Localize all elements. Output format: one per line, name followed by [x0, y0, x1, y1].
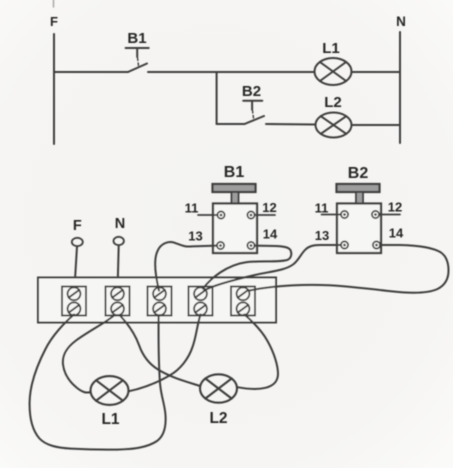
- pushbutton B1 pin 13 terminal: [217, 242, 224, 249]
- pushbutton B1 pin 14 terminal: [247, 242, 254, 249]
- svg-text:11: 11: [315, 201, 329, 216]
- svg-text:L1: L1: [322, 40, 340, 57]
- pushbutton B2 pin 14 terminal: [373, 241, 380, 248]
- pushbutton B2 pin 13 terminal: [341, 241, 348, 248]
- pushbutton B1 body: [213, 204, 257, 254]
- pushbutton B2 cap: [337, 184, 380, 192]
- svg-text:B1: B1: [224, 164, 245, 181]
- pushbutton B2 stem: [356, 192, 363, 204]
- node F input terminal: [72, 238, 83, 246]
- svg-text:14: 14: [389, 226, 404, 241]
- terminal block unit 4: [189, 287, 213, 316]
- svg-text:B2: B2: [242, 83, 261, 100]
- svg-text:L2: L2: [324, 94, 342, 111]
- svg-text:B1: B1: [127, 30, 146, 47]
- svg-text:F: F: [50, 14, 58, 29]
- svg-text:13: 13: [188, 229, 202, 244]
- terminal block outline: [38, 278, 276, 323]
- pushbutton B1 (ladder) actuator: [126, 48, 149, 57]
- lamp L1: [91, 376, 129, 405]
- lamp L2 (ladder): [316, 113, 352, 138]
- wire rung1 middle segment: [148, 71, 315, 73]
- lamp L1 (ladder): [315, 58, 352, 85]
- wire rung1 right segment: [352, 71, 401, 73]
- pushbutton B2 pin 11 terminal: [341, 211, 348, 218]
- wire F rail: [53, 34, 55, 144]
- wire rung1 left segment: [54, 71, 128, 73]
- svg-text:11: 11: [185, 201, 199, 216]
- wire terminal 2 to lamp L1 left: [63, 316, 114, 393]
- pushbutton B1 (ladder) contact blade: [128, 64, 147, 73]
- svg-text:12: 12: [262, 200, 276, 215]
- pushbutton B1 pin 11 terminal: [217, 211, 224, 218]
- wire F to terminal 1: [75, 247, 78, 289]
- pushbutton B1 pin 11 lead: [198, 214, 217, 216]
- pushbutton B1 stem: [232, 192, 239, 204]
- wire N rail: [399, 32, 401, 143]
- svg-text:L2: L2: [209, 410, 227, 427]
- svg-text:L1: L1: [101, 411, 119, 428]
- wire branch rung1 to rung2: [216, 72, 218, 124]
- pushbutton B2 pin 12 terminal: [372, 211, 379, 218]
- pushbutton B1 (ladder) actuator dashed link: [138, 58, 139, 67]
- terminal block unit 5: [231, 287, 255, 316]
- wire terminal 3 to B1 pin 13: [155, 242, 217, 290]
- wire N to terminal 2: [118, 246, 119, 289]
- svg-text:14: 14: [263, 227, 278, 242]
- svg-text:12: 12: [388, 200, 402, 215]
- svg-text:13: 13: [315, 228, 329, 243]
- wire terminal 1 to terminal 3 outer loop: [30, 315, 166, 450]
- wire B2 pin 14 loop to terminal 5: [250, 245, 449, 293]
- wire B2 pin 13 to terminal 4: [204, 245, 341, 291]
- wire B1 pin 14 hairpin to terminal 4: [203, 246, 291, 289]
- pushbutton B2 (ladder) actuator: [243, 101, 262, 110]
- terminal block unit 2: [106, 287, 130, 316]
- pushbutton B2 body: [337, 204, 381, 254]
- pushbutton B1 pin 12 lead: [255, 214, 275, 216]
- terminal block unit 3: [148, 287, 172, 316]
- pushbutton B2 (ladder) actuator dashed link: [253, 111, 254, 120]
- lamp L2: [200, 374, 237, 402]
- wire terminal 2 to lamp L2 left: [120, 316, 200, 387]
- wire terminal 4 to lamp L1 right: [129, 315, 201, 392]
- pushbutton B2 pin 12 lead: [379, 214, 400, 216]
- svg-text:B2: B2: [348, 165, 369, 182]
- svg-text:F: F: [73, 218, 82, 234]
- pushbutton B2 (ladder) contact blade: [245, 116, 265, 124]
- svg-text:N: N: [396, 14, 406, 29]
- pushbutton B1 cap: [213, 184, 256, 192]
- terminal block unit 1: [62, 287, 86, 316]
- wire terminal 5 to lamp L2 right: [238, 315, 279, 390]
- wire rung2 right segment: [352, 124, 401, 126]
- pushbutton B1 pin 12 terminal: [247, 211, 254, 218]
- wire rung2 middle segment: [266, 123, 316, 126]
- wire rung2 left segment: [217, 123, 245, 125]
- pushbutton B2 pin 11 lead: [322, 214, 342, 216]
- node N input terminal: [114, 237, 124, 245]
- svg-text:N: N: [115, 216, 125, 232]
